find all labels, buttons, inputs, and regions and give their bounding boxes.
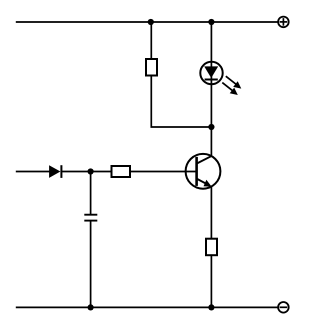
wire top rail (16, 21, 278, 23)
LED D2 (200, 62, 222, 84)
LED light arrow 2 (222, 83, 238, 95)
wire emitter lead (210, 186, 212, 239)
capacitor C1 (84, 215, 97, 221)
node junction bottom-left (88, 304, 94, 310)
node junction top-right (208, 19, 214, 25)
resistor R2 (112, 166, 131, 177)
LED light arrow 1 (226, 76, 242, 88)
wire bottom rail (16, 306, 278, 308)
resistor R1 (146, 59, 157, 76)
terminal - (negative supply) (278, 302, 289, 313)
wire input lead left (16, 171, 50, 173)
wire capacitor bottom lead (90, 221, 92, 307)
wire diode to R2 (61, 171, 111, 173)
wire capacitor top lead (90, 172, 92, 215)
wire LED branch / collector (210, 22, 212, 156)
diode D1 (49, 165, 61, 178)
node junction base/cap (88, 168, 94, 174)
terminal + (positive supply) (278, 17, 289, 28)
wire R1 bottom lead to node (151, 77, 211, 128)
transistor Q1 (186, 154, 221, 189)
resistor R3 (206, 239, 217, 256)
node junction top-left (148, 19, 154, 25)
wire R2 to base (130, 171, 197, 173)
node junction collector (208, 124, 214, 130)
wire R3 bottom lead (210, 255, 212, 307)
wire R1 top lead (150, 22, 152, 59)
node junction bottom-right (208, 304, 214, 310)
